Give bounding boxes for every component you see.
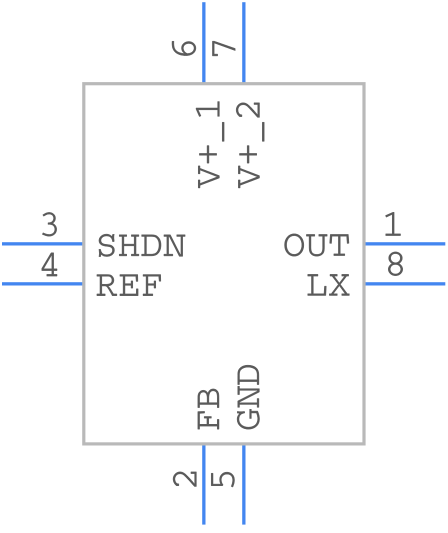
pin name GND [237, 365, 259, 429]
IC body U1 (MAX770-style regulator symbol outline) [84, 84, 364, 444]
pin 7 lead [242, 2, 245, 84]
pin number 7 [212, 41, 235, 56]
pin number 6 [172, 41, 196, 55]
pin number 4 [42, 253, 57, 276]
pin name FB [198, 389, 219, 429]
pin number 5 [211, 472, 234, 487]
pin number 8 [388, 252, 403, 276]
pin 4 lead [2, 282, 84, 285]
pin number 3 [42, 212, 56, 236]
pin name V+_1 [196, 102, 224, 188]
pin number 2 [173, 472, 196, 487]
pin 6 lead [202, 2, 205, 84]
pin 2 lead [202, 444, 205, 525]
pin 5 lead [242, 444, 245, 525]
pin name OUT [285, 234, 349, 256]
pin name SHDN [99, 234, 185, 257]
pin name LX [308, 274, 350, 295]
pin name V+_2 [236, 103, 264, 188]
pin 1 lead [364, 242, 445, 245]
pin 3 lead [2, 242, 84, 245]
pin 8 lead [364, 282, 445, 285]
pin name REF [97, 275, 161, 296]
pin number 1 [385, 212, 400, 235]
